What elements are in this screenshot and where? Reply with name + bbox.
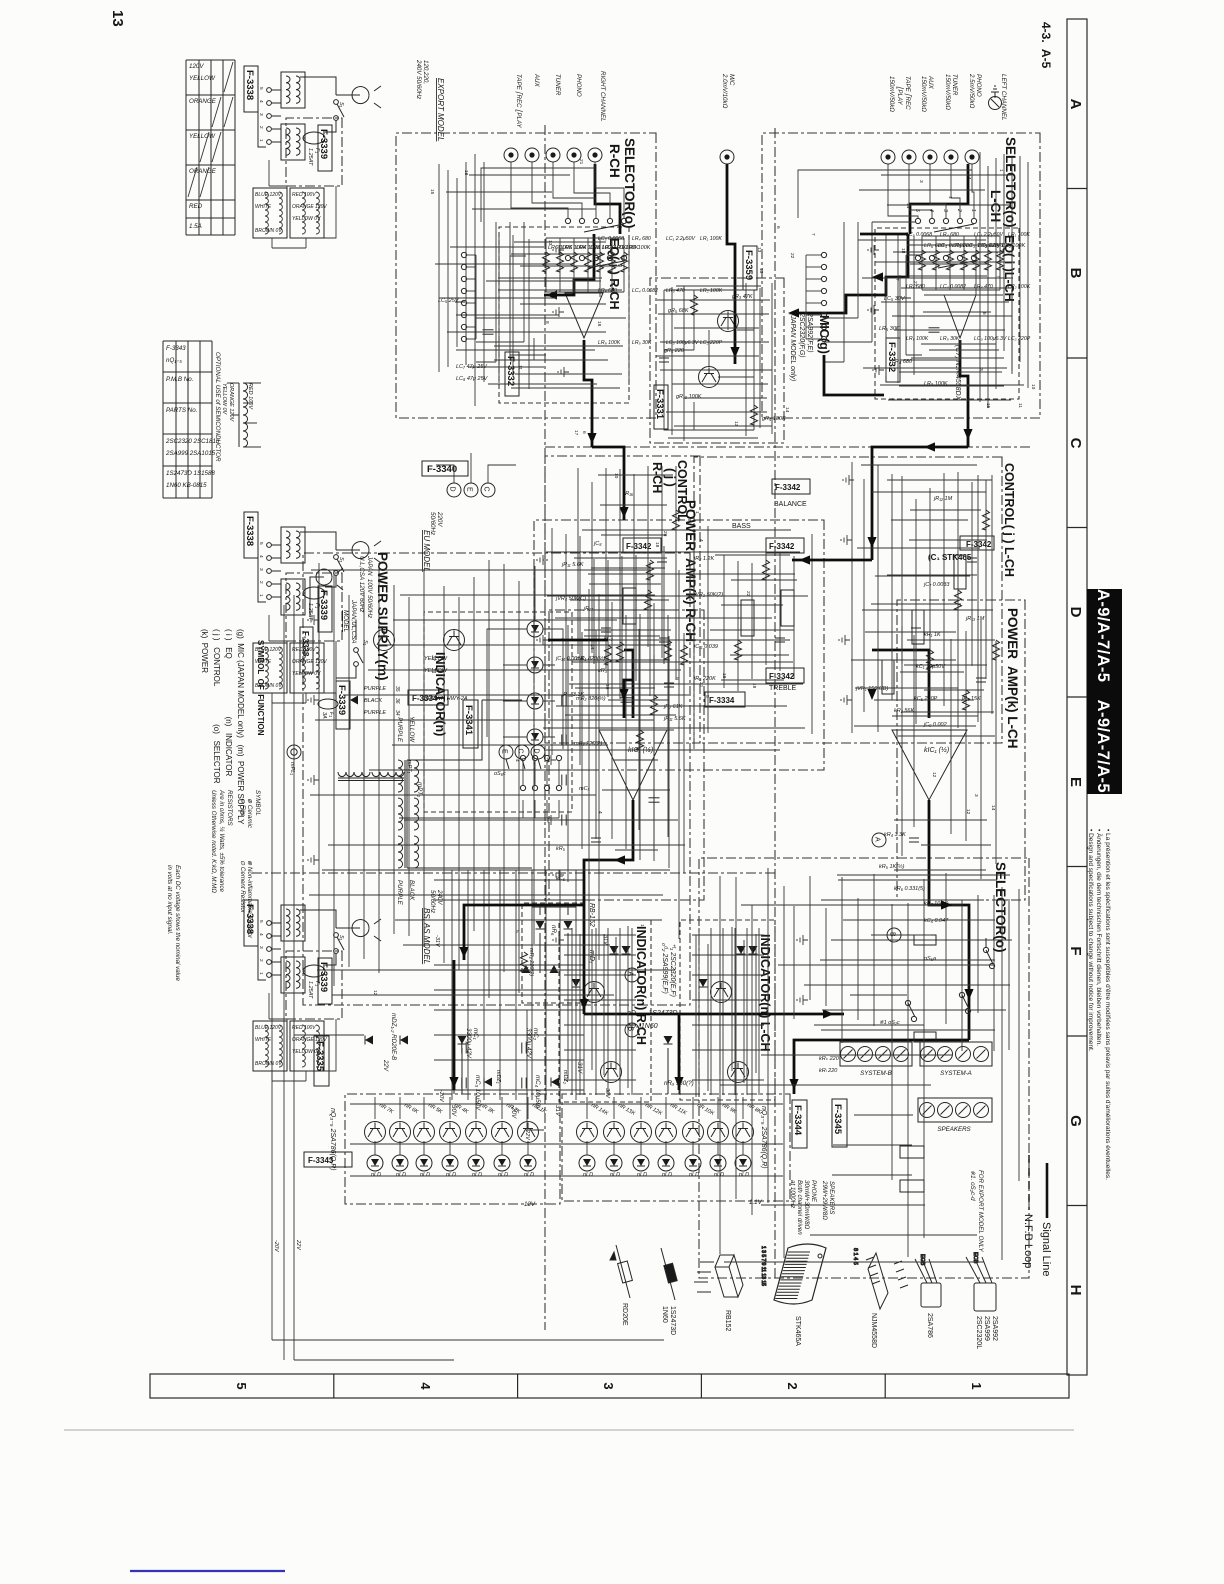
svg-text:POWER AMP(k) L-CH: POWER AMP(k) L-CH [1005,608,1020,749]
svg-text:kC₅ 220P: kC₅ 220P [914,696,938,702]
svg-text:mC₄ 10μ50V: mC₄ 10μ50V [534,1075,541,1111]
led nLD11 [658,1155,674,1171]
block EQ(i) L-CH [875,228,1019,399]
svg-text:LR₃ 470: LR₃ 470 [974,284,993,290]
block INDICATOR(n) F-3341 [424,612,572,812]
svg-text:gR₅ 68K: gR₅ 68K [668,308,689,314]
svg-text:BROWN 0V: BROWN 0V [255,228,282,234]
svg-text:F-3339: F-3339 [318,590,329,620]
svg-text:36: 36 [394,698,400,704]
svg-text:Both channel driven: Both channel driven [796,1180,803,1235]
svg-text:13: 13 [109,10,126,27]
AC plug EXPORT MODEL [352,86,381,108]
svg-text:LR₄ 680: LR₄ 680 [940,232,959,238]
svg-text:LC₄ 0.0082: LC₄ 0.0082 [940,284,966,290]
tone cluster extra wiring [543,526,812,765]
zener mDZ3 [350,696,358,705]
svg-text:150mV/50kΩ: 150mV/50kΩ [944,74,951,110]
led nLD4 [527,729,543,745]
transistor nQ2 L-CH [728,1062,749,1083]
transformer mPT1 [396,716,423,905]
svg-text:SPEAKERS: SPEAKERS [828,1181,835,1215]
heavy trunk tone to amp L [872,650,929,718]
label F-3339 bs [318,958,332,1004]
arrowhead extra 3 [867,689,876,700]
bridge rectifier RB-152 [522,903,596,1003]
svg-text:2: 2 [785,1382,800,1389]
svg-text:INDICATOR(n) L-CH: INDICATOR(n) L-CH [758,934,772,1052]
svg-text:1 3 5 7 9 11 13 15: 1 3 5 7 9 11 13 15 [760,1246,766,1286]
svg-text:LR₁ 100K: LR₁ 100K [700,236,722,242]
heavy trunk amp L out [929,800,969,1040]
connector circle D [447,483,461,497]
connector circle E 2 [499,745,513,759]
svg-text:jC₇ 0.0033: jC₇ 0.0033 [923,582,950,588]
led nLD7 [367,1155,383,1171]
resistor nR12 [640,1097,642,1119]
svg-text:AUX: AUX [927,75,934,90]
resistor nR14 [586,1097,588,1119]
switch oS5a [986,938,993,964]
heavy seg amp R feed [624,680,633,718]
svg-text:F-3340: F-3340 [427,464,457,475]
grid numbers [234,1382,984,1390]
svg-text:1.1V: 1.1V [749,1199,763,1206]
svg-text:TAPE ⎡REC ⎣PLAY: TAPE ⎡REC ⎣PLAY [515,74,523,129]
connector contacts BS AS MODEL [267,921,272,926]
connector circle A amp [872,833,886,847]
svg-text:RIGHT CHANNEL: RIGHT CHANNEL [599,71,606,122]
EQ L-CH resistor ladder [879,236,1025,387]
svg-text:32: 32 [430,655,436,661]
svg-text:WHITE: WHITE [255,659,272,665]
tape monitor contacts [821,252,826,257]
svg-text:mDZ₁: mDZ₁ [495,1070,501,1084]
svg-text:220V: 220V [436,511,443,527]
fuse F1 EXPORT MODEL [303,132,325,144]
svg-text:120V: 120V [189,63,204,70]
separator line vertical F [250,872,775,874]
switch oS2c [908,1003,915,1017]
heavy trunk speaker L feed [794,1040,969,1094]
ground symbols [868,245,879,255]
svg-text:F-3339: F-3339 [336,685,347,715]
svg-text:22V: 22V [382,1059,389,1072]
control R-CH wiring [567,466,680,699]
svg-text:Each DC voltage shows the nomi: Each DC voltage shows the nominal value [174,865,181,981]
heavy trunk R-CH input [595,164,620,234]
label F-3338 eu [244,512,258,558]
led nLD14 [579,1155,595,1171]
svg-text:LC₃ 100μ6.3V: LC₃ 100μ6.3V [974,336,1007,342]
svg-text:50/60Hz: 50/60Hz [429,890,436,914]
transformer winding EU [290,643,324,693]
F-3343 indicator array [350,1097,783,1178]
svg-text:ORANGE 120V: ORANGE 120V [292,204,327,210]
svg-text:35: 35 [394,686,400,692]
svg-text:LR₉ 100K: LR₉ 100K [598,340,621,346]
arrowhead control L [867,537,876,548]
heavy trunk R eq out [584,340,592,447]
svg-text:nLD: nLD [689,1172,699,1178]
svg-text:mR₂ 820(½): mR₂ 820(½) [576,695,606,702]
transistor nQ1 R-CH [584,982,605,1003]
svg-text:2SA999 2SA1015: 2SA999 2SA1015 [165,450,216,457]
svg-text:TREBLE: TREBLE [769,685,797,692]
diode nD4 L [699,979,708,987]
svg-text:RB152: RB152 [724,1310,731,1332]
switch mS1 japan [354,648,359,653]
led nLD1 [520,1155,536,1171]
svg-text:12V: 12V [524,1201,536,1208]
block MIC(g) [650,278,784,443]
svg-text:1: 1 [970,209,976,212]
transistor nQ1 L-CH [711,982,732,1003]
transistor nQ3 [466,1122,487,1143]
svg-text:2SA992(F,E): 2SA992(F,E) [806,312,813,353]
svg-text:nLD: nLD [420,1172,430,1178]
label F-3342 treble [766,668,804,683]
svg-text:nQ₁₋₅: nQ₁₋₅ [166,357,182,364]
heavy trunk control L [872,447,968,560]
svg-text:WHITE: WHITE [255,1037,272,1043]
transformer winding EXPORT [290,188,324,238]
connector circle C 2 [515,745,529,759]
gnd jack [989,97,1002,110]
resistor nR3 [475,1097,477,1119]
svg-text:gR₄ 180K: gR₄ 180K [762,416,786,422]
zener mDZ1 [365,1036,373,1045]
svg-text:D: D [449,487,456,492]
block SELECTOR(o) speakers [699,858,1029,1278]
svg-text:F₁: F₁ [328,712,334,717]
grid letter strip A-H [1067,19,1087,1375]
svg-text:nLD: nLD [637,1172,647,1178]
svg-text:ORANGE 120V: ORANGE 120V [292,659,327,665]
wire array feed L [668,1014,699,1094]
svg-text:4: 4 [928,209,934,212]
footnote bullets [1087,829,1111,1180]
arrowhead extra 5 [941,900,952,909]
svg-text:240V 50/60Hz: 240V 50/60Hz [415,59,422,100]
svg-text:-31V: -31V [434,935,440,948]
arrowhead speaker R [823,1009,834,1018]
control L-CH wiring [854,472,993,728]
diode nD2 [610,946,619,954]
package NJM4558D dip8 [852,1248,908,1309]
svg-text:MIC(g): MIC(g) [817,315,831,354]
svg-text:WHITE: WHITE [255,204,272,210]
svg-text:nLD: nLD [714,1172,724,1178]
svg-text:( i ) EQ: ( i ) EQ (n) INDICATOR [224,629,233,776]
capacitor mC3 10u50V [462,1078,466,1089]
svg-text:kR₅: kR₅ [556,846,566,852]
block F-3343 LED array [345,1094,560,1204]
svg-text:kRₗ 220: kRₗ 220 [819,1068,838,1074]
block CONTROL(j) R-CH [545,456,700,743]
transistor nQ10 [683,1122,704,1143]
svg-text:POWER SUPPLY(m): POWER SUPPLY(m) [375,552,390,681]
svg-text:N.F.B Loop: N.F.B Loop [1022,1214,1034,1268]
svg-text:nQ₃₋₅ 2SA786(Q,R): nQ₃₋₅ 2SA786(Q,R) [760,1106,767,1169]
pilot lamp mPL1 [287,745,301,759]
svg-text:3300μ 42V: 3300μ 42V [465,1028,472,1059]
speaker terminal strip main [918,1098,992,1133]
svg-text:3A: 3A [321,712,327,719]
svg-text:YELLOW 0V: YELLOW 0V [292,216,321,222]
resistor nR13 [613,1097,615,1119]
svg-text:mDZ₁,₂ RD20E-B: mDZ₁,₂ RD20E-B [390,1013,397,1060]
svg-text:nLD: nLD [524,1172,534,1178]
svg-text:CONTROL( j ) L-CH: CONTROL( j ) L-CH [1002,463,1016,577]
svg-text:22V: 22V [524,1129,530,1141]
heavy trunk tone to amp R [624,650,633,718]
block INDICATOR(n) R-CH [559,920,651,1102]
switch S1 EU MODEL [334,555,339,560]
svg-text:gR₁₀ 100K: gR₁₀ 100K [676,394,702,400]
op-amp U-EQL NJM4558DX [944,295,976,338]
zener mDZ2 [400,1036,408,1045]
transistor nQ8 [733,1122,754,1143]
svg-text:P.M.B No.: P.M.B No. [166,376,193,383]
svg-text:S₁: S₁ [338,935,344,941]
arrowhead amp L out [964,989,973,1000]
svg-text:C: C [483,487,490,492]
heavy trunk speaker R feed [584,1013,844,1016]
svg-text:LEFT CHANNEL: LEFT CHANNEL [1000,74,1007,121]
svg-text:BROWN 0V: BROWN 0V [255,683,282,689]
svg-text:PARTS No.: PARTS No. [166,407,197,414]
svg-text:F-3334: F-3334 [709,696,735,705]
svg-text:S₁: S₁ [362,640,368,646]
svg-text:mR₄ 220(2): mR₄ 220(2) [574,741,602,747]
svg-text:⊗ Non-inflammable Resistor: ⊗ Non-inflammable Resistor [246,860,253,939]
svg-text:F-3338: F-3338 [244,70,255,100]
svg-text:SYSTEM-B: SYSTEM-B [860,1070,892,1077]
svg-text:1.25AT: 1.25AT [307,148,313,166]
wires BS AS MODEL [258,910,336,980]
svg-text:nLD: nLD [498,1172,508,1178]
svg-text:LR₆ 680: LR₆ 680 [598,288,617,294]
led nLD8 [735,1155,751,1171]
power amp L-CH wiring [872,620,1000,942]
svg-text:PHONE: PHONE [810,1180,817,1203]
resistor notes [166,789,261,981]
tone control treble network [663,546,665,664]
svg-text:L-CH: L-CH [988,190,1003,222]
heavy trunk control R [592,447,624,520]
transistor nQ2 [492,1122,513,1143]
diode nD2 L [737,946,746,954]
svg-text:ORANGE 120V: ORANGE 120V [228,383,234,423]
svg-text:jR₁₃ 1M: jR₁₃ 1M [965,616,985,622]
EQ R interior labels [598,236,723,346]
svg-text:F-3342: F-3342 [769,542,795,551]
speaker selector wiring [794,873,1012,1074]
svg-text:1S2473D 1S1588: 1S2473D 1S1588 [166,470,215,477]
arrowhead mic [730,347,739,358]
svg-text:YELLOW 0V: YELLOW 0V [221,383,227,416]
package 2SA992 group [966,1252,996,1311]
svg-text:nLD: nLD [446,1172,456,1178]
svg-text:LC₅ 0.0068: LC₅ 0.0068 [906,232,932,238]
MIC extra wiring [656,283,772,441]
svg-text:kC₄ 0.047: kC₄ 0.047 [924,918,949,924]
wire array feed R [454,1014,462,1094]
svg-text:LR₁ 100K: LR₁ 100K [1008,232,1030,238]
amp STK465 R-CH triangle [599,730,667,800]
svg-text:INDICATOR(n): INDICATOR(n) [433,652,447,736]
svg-text:31: 31 [430,668,436,674]
package RB152 [694,1255,743,1297]
svg-text:4: 4 [418,1382,433,1390]
svg-text:BLUE 120V: BLUE 120V [255,1025,282,1031]
svg-text:PURPLE: PURPLE [364,686,386,692]
svg-text:• Design and specifications su: • Design and specifications subject to c… [1087,829,1094,1052]
resistor nR8 [742,1097,744,1119]
svg-text:jR₁₁ 5.6K: jR₁₁ 5.6K [663,716,686,722]
block SELECTOR(o) R-CH [396,133,656,418]
transistor nQ13 [604,1122,625,1143]
svg-text:(k) POWER: (k) POWER [200,629,209,673]
svg-text:(g) MIC (JAPAN MODEL only): (g) MIC (JAPAN MODEL only) (m) POWER SUP… [236,629,245,825]
svg-text:LR₅ 30K: LR₅ 30K [879,326,900,332]
switch oS1c contacts [971,255,976,260]
svg-text:LC₁ 2.2μ50V: LC₁ 2.2μ50V [974,232,1004,238]
svg-text:nR₆: nR₆ [550,925,557,936]
svg-text:oS₅a: oS₅a [924,956,936,962]
heavy seg indicator feed [464,905,584,960]
label F-3342 mid [623,538,661,553]
svg-text:ORANGE: ORANGE [189,168,217,175]
svg-text:nLD: nLD [662,1172,672,1178]
switch oS5b [962,995,969,1009]
diode nD1 [622,946,631,954]
svg-text:kR₆ 0.331(5): kR₆ 0.331(5) [894,886,925,892]
led nLD10 [685,1155,701,1171]
svg-text:150mV/50kΩ: 150mV/50kΩ [888,76,895,112]
svg-text:YELLOW: YELLOW [189,133,216,140]
svg-text:MIC: MIC [728,74,735,86]
svg-text:RED 100V: RED 100V [292,647,316,653]
svg-text:LC₅ 30V: LC₅ 30V [884,296,906,302]
label F-3342 balance [772,479,810,494]
svg-text:ECB: ECB [919,1254,925,1266]
svg-text:E: E [501,749,508,754]
grid number strip 1-5 [150,1374,1069,1398]
svg-text:31V: 31V [602,935,608,946]
svg-text:RED 100V: RED 100V [292,1025,316,1031]
svg-text:F-3342: F-3342 [775,483,801,492]
svg-text:kIC₁ (½): kIC₁ (½) [924,746,949,754]
label F-3345 [832,1099,847,1147]
led nLD5 [416,1155,432,1171]
switch oS1b contacts [621,218,626,223]
svg-text:R-CH: R-CH [607,144,622,178]
arrowhead EQ R [546,290,557,299]
svg-text:PHONO: PHONO [575,74,582,97]
switch fuse box BS/AS [286,951,342,1019]
transformer winding BS/AS [290,1021,324,1071]
switch fuse box EU [286,573,342,641]
svg-text:F-3343: F-3343 [166,345,186,352]
svg-text:SELECTOR(o): SELECTOR(o) [993,862,1008,953]
transistor gQ2 [699,367,720,388]
svg-text:LC₃ 100μ6.3V: LC₃ 100μ6.3V [666,340,699,346]
arrowhead amp R out [579,999,588,1010]
svg-text:LR₉ 100K: LR₉ 100K [906,336,929,342]
svg-text:jR₁₆: jR₁₆ [623,491,634,497]
zener mDZ2 pos [551,1078,559,1087]
transistor nQ4 [440,1122,461,1143]
connector circle B [625,1023,639,1037]
connector circle D 2 [531,745,545,759]
pot jVR1 [882,660,894,694]
svg-text:LR₆ 680: LR₆ 680 [924,243,945,249]
svg-text:Unless Otherwise noted. K:kΩ,: Unless Otherwise noted. K:kΩ, M:MΩ [210,790,217,893]
svg-text:kC₁ 10μ50V: kC₁ 10μ50V [916,664,946,670]
svg-text:YELLOW 0V: YELLOW 0V [292,671,321,677]
svg-text:RED: RED [189,203,203,210]
switch fuse box EXPORT [286,118,342,186]
connector circle E [464,483,478,497]
indicator driver extra wiring [568,926,756,1097]
tape monitor contacts R [461,252,466,257]
svg-text:BLUE 120V: BLUE 120V [255,192,282,198]
svg-text:RESISTORS: RESISTORS [226,790,233,827]
transistor nQ9 [708,1122,729,1143]
speaker terminal strip SYSTEM-A [920,1042,992,1077]
svg-text:(C₁ STK465: (C₁ STK465 [928,553,972,562]
long power rails to indicator boards [272,595,664,1360]
EQ R extra wiring [494,234,629,389]
svg-text:LR₅ 30K: LR₅ 30K [940,336,960,342]
transistor gQ1 [718,311,739,332]
mains section BS AS MODEL [258,905,381,999]
svg-text:1.25AT: 1.25AT [307,981,313,999]
svg-text:• Änderungen, die dem technisc: • Änderungen, die dem technischen Fortsc… [1095,829,1103,1046]
resistor nR10 [692,1097,694,1119]
heavy trunk selector to EQ L [796,234,908,313]
svg-text:kR₂ 56K: kR₂ 56K [894,708,914,714]
svg-text:PURPLE: PURPLE [364,710,386,716]
relay boxes [914,935,936,945]
svg-text:SELECTOR(o): SELECTOR(o) [1003,137,1018,228]
block POWER SUPPLY(m) [303,553,690,1005]
svg-text:ORANGE 120V: ORANGE 120V [292,1037,327,1043]
transistor nQ2 R-CH [601,1062,622,1083]
svg-text:kR₄ 3.3K: kR₄ 3.3K [884,832,906,838]
svg-text:STK465A: STK465A [794,1316,801,1346]
switch oS1d contacts [621,255,626,260]
svg-text:240V: 240V [436,889,443,905]
label F-3342 bass [766,538,804,553]
led nLD2 [527,657,543,673]
block tone control center F-3334 [534,520,824,770]
fuse F1 EU MODEL [303,587,325,599]
svg-text:jR₁₂ 1M: jR₁₂ 1M [933,496,953,502]
svg-text:F-3338: F-3338 [244,516,255,546]
svg-text:5: 5 [234,1382,249,1389]
svg-text:D: D [533,749,540,754]
transformer secondary color labels [364,655,448,716]
svg-text:3300μ 42V: 3300μ 42V [525,1028,532,1059]
label F-3340 [422,461,468,476]
svg-text:MODEL: MODEL [342,610,349,633]
diode nD1 L [749,946,758,954]
arrowhead tone L [799,555,810,564]
arrowhead eq R out [587,433,596,444]
